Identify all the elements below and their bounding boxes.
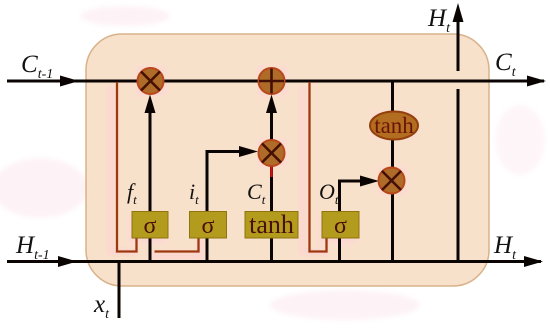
wire: input gate elbow (H line up through sigma2, right to mid multiply) bbox=[207, 152, 248, 262]
arrowhead H into cell bbox=[58, 256, 77, 267]
pink halo artifacts around wires bbox=[111, 66, 416, 256]
tanh box (candidate) bbox=[245, 212, 298, 239]
arrowhead C_t output bbox=[527, 76, 546, 87]
wire: H line (hidden state, left to right) bbox=[7, 260, 541, 263]
cell body rounded rectangle bbox=[86, 34, 489, 286]
red tick artifact below mid multiply bbox=[270, 167, 273, 177]
arrowhead H_t right output bbox=[524, 256, 543, 267]
wire: red feed to output gate bbox=[310, 82, 327, 252]
svg-text:Ct-1: Ct-1 bbox=[21, 51, 53, 82]
tanh ellipse bbox=[370, 112, 418, 140]
sigma box 1 (forget gate) bbox=[132, 212, 168, 239]
svg-text:σ: σ bbox=[334, 213, 347, 239]
wire: x_t input vertical bbox=[118, 260, 121, 318]
svg-text:Ht: Ht bbox=[427, 5, 451, 36]
wire: red feed to forget gate bbox=[117, 82, 137, 252]
wire: mid multiply up to adder bbox=[270, 106, 273, 140]
wire: C line (cell state, left to right) bbox=[7, 80, 544, 83]
wire: forget gate vertical (H line up through sigma1 to multiply) bbox=[149, 106, 152, 262]
svg-text:xt: xt bbox=[93, 291, 110, 322]
svg-text:tanh: tanh bbox=[249, 210, 294, 239]
add node on C line bbox=[259, 68, 285, 94]
wire: candidate vertical (H line up through tanh box to mid multiply) bbox=[270, 166, 273, 262]
svg-text:σ: σ bbox=[202, 213, 215, 239]
sigma box 2 (input gate) bbox=[190, 212, 227, 239]
multiply node mid (input x candidate) bbox=[259, 140, 285, 166]
wire: H_t vertical output to top bbox=[457, 89, 460, 262]
svg-text:Ht-1: Ht-1 bbox=[15, 232, 50, 263]
wire: output gate elbow (H line up through sigma3, right to out multiply) bbox=[340, 181, 370, 262]
wire: C branch down through tanh ellipse and out multiply to H line bbox=[391, 82, 394, 262]
multiply node on C line (forget) bbox=[138, 68, 164, 94]
svg-text:Ct: Ct bbox=[495, 49, 517, 80]
sigma box 3 (output gate) bbox=[322, 212, 359, 239]
svg-text:σ: σ bbox=[144, 213, 157, 239]
arrowhead C into cell bbox=[60, 76, 79, 87]
svg-text:tanh: tanh bbox=[374, 113, 414, 138]
svg-text:Ht: Ht bbox=[493, 232, 517, 263]
multiply node output bbox=[379, 168, 405, 194]
wire: red feed to input gate bbox=[155, 239, 199, 252]
